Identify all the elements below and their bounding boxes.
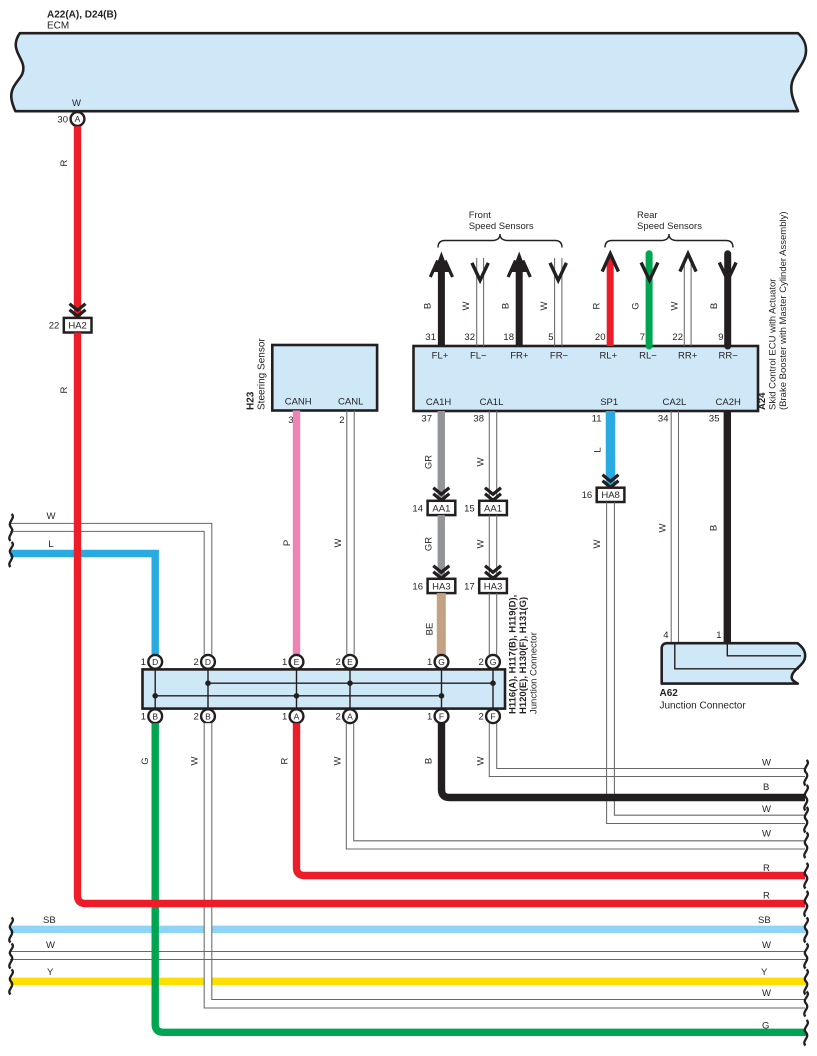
- junction pin 1(E): [282, 655, 303, 669]
- A24 Skid Control ECU box: [414, 211, 790, 411]
- svg-text:W: W: [190, 756, 201, 765]
- row Y (full width): [9, 967, 808, 995]
- svg-text:2: 2: [194, 711, 199, 722]
- svg-text:35: 35: [709, 414, 720, 425]
- torn mark left row W-D: [9, 944, 13, 969]
- left entry wire W (to junction 2D): [9, 511, 212, 655]
- svg-text:W: W: [476, 457, 487, 466]
- svg-text:HA8: HA8: [601, 490, 619, 501]
- svg-text:Y: Y: [47, 967, 54, 978]
- svg-text:L: L: [48, 539, 53, 550]
- svg-text:Front: Front: [469, 210, 492, 221]
- svg-text:SP1: SP1: [600, 397, 618, 408]
- svg-text:20: 20: [595, 332, 606, 343]
- svg-text:RL+: RL+: [599, 351, 617, 362]
- torn mark W left: [9, 514, 13, 541]
- svg-text:W: W: [762, 988, 771, 999]
- svg-text:SB: SB: [43, 915, 56, 926]
- wire GR (AA1 to HA3): [424, 515, 442, 577]
- sensor wire FR- pin 5 (W, chevron down): [539, 258, 566, 346]
- svg-text:B: B: [501, 303, 512, 309]
- svg-text:SB: SB: [758, 915, 771, 926]
- svg-text:2: 2: [339, 415, 344, 426]
- svg-text:GR: GR: [424, 455, 435, 469]
- svg-text:W: W: [333, 756, 344, 765]
- svg-text:CANH: CANH: [285, 397, 312, 408]
- Rear Speed Sensors label + brace: [605, 210, 733, 248]
- svg-text:Junction Connector: Junction Connector: [660, 701, 747, 712]
- torn mark right row G: [804, 1020, 808, 1046]
- svg-text:2: 2: [479, 711, 484, 722]
- junction pin 1(A): [282, 709, 303, 723]
- svg-text:A62: A62: [660, 688, 679, 699]
- junction pin 1(G): [427, 655, 448, 669]
- svg-text:16: 16: [582, 490, 593, 501]
- junction pin 1(F): [427, 709, 448, 723]
- svg-text:Y: Y: [761, 967, 768, 978]
- junction pin 2(E): [336, 655, 357, 669]
- sensor wire RR- pin 9 (B, chevron down): [709, 254, 736, 346]
- sensor wire RL+ pin 20 (R, open chevron up): [592, 254, 619, 346]
- svg-text:FR+: FR+: [510, 351, 529, 362]
- svg-text:15: 15: [464, 503, 475, 514]
- svg-text:22: 22: [672, 332, 683, 343]
- Junction Connector H116(A)...H131(G) box: [143, 595, 540, 714]
- row W-B torn mark + label (wire from HA8 drawn above): [762, 804, 808, 833]
- connector 15 AA1 (on CA1L wire): [464, 488, 507, 515]
- torn mark L left: [9, 542, 13, 567]
- svg-text:30: 30: [57, 115, 68, 126]
- svg-text:L: L: [593, 447, 604, 452]
- svg-text:3: 3: [288, 415, 293, 426]
- H23 pin 3 / wire P (pink) to junction 1E: [282, 411, 297, 655]
- junction pin 2(G): [479, 655, 500, 669]
- svg-text:1: 1: [282, 657, 287, 668]
- svg-text:W: W: [476, 756, 487, 765]
- svg-text:W: W: [762, 829, 771, 840]
- svg-text:Skid Control ECU with Actuator: Skid Control ECU with Actuator: [768, 279, 779, 410]
- svg-text:E: E: [347, 657, 353, 667]
- svg-text:P: P: [282, 540, 293, 546]
- junction pin 2(D): [194, 655, 215, 669]
- svg-text:R: R: [592, 302, 603, 309]
- svg-text:HA2: HA2: [68, 321, 86, 332]
- svg-text:R: R: [59, 159, 70, 166]
- torn mark right row W-A: [804, 760, 808, 786]
- svg-text:G: G: [438, 657, 445, 667]
- svg-text:Steering Sensor: Steering Sensor: [257, 338, 268, 410]
- sensor wire RR+ pin 22 (W, open chevron up): [670, 254, 697, 346]
- torn mark left row SB: [9, 918, 13, 943]
- svg-text:W: W: [476, 539, 487, 548]
- svg-text:A: A: [294, 711, 300, 721]
- H23 Steering Sensor box: [246, 338, 378, 411]
- svg-text:W: W: [762, 804, 771, 815]
- A24 pin 34 / wire W to A62 pin 4: [658, 411, 679, 644]
- svg-text:CA1H: CA1H: [426, 397, 451, 408]
- wire W (HA3 to junction 2G): [489, 593, 496, 656]
- sensor wire RL- pin 7 (G, chevron down): [631, 254, 658, 346]
- svg-text:G: G: [490, 657, 497, 667]
- svg-text:R: R: [763, 863, 770, 874]
- svg-text:1: 1: [716, 630, 721, 641]
- svg-text:CANL: CANL: [338, 397, 363, 408]
- row W-D (full width): [9, 940, 808, 969]
- svg-text:A24: A24: [757, 392, 768, 410]
- torn mark left row Y: [9, 970, 13, 995]
- svg-text:14: 14: [412, 503, 423, 514]
- torn mark right row R1: [804, 863, 808, 889]
- svg-text:2: 2: [194, 657, 199, 668]
- wire R from ECM pin 30 down (through HA2) to row R2: [59, 126, 78, 316]
- svg-text:G: G: [140, 757, 151, 764]
- svg-text:Speed Sensors: Speed Sensors: [469, 221, 534, 232]
- svg-text:37: 37: [421, 414, 432, 425]
- row W-C torn mark + label: [762, 829, 808, 859]
- wire W from 2(B) down, turns right into row W-E: [190, 723, 808, 1016]
- torn mark right row SB: [804, 918, 808, 943]
- svg-text:B: B: [709, 525, 720, 531]
- torn mark right row W-D: [804, 944, 808, 969]
- svg-text:G: G: [762, 1021, 769, 1032]
- svg-text:CA2L: CA2L: [663, 397, 687, 408]
- svg-text:1: 1: [427, 657, 432, 668]
- svg-text:A: A: [347, 711, 353, 721]
- svg-text:A22(A), D24(B): A22(A), D24(B): [47, 10, 117, 21]
- svg-text:W: W: [47, 511, 56, 522]
- svg-text:1: 1: [282, 711, 287, 722]
- svg-text:34: 34: [658, 414, 669, 425]
- torn mark right row R2: [804, 891, 808, 917]
- junction pin 1(B): [141, 709, 162, 723]
- ECM A22(A), D24(B) connector band: [11, 10, 806, 112]
- svg-text:11: 11: [592, 414, 602, 425]
- svg-text:F: F: [490, 711, 495, 721]
- svg-text:17: 17: [464, 581, 475, 592]
- svg-text:(Brake Booster with Master Cyl: (Brake Booster with Master Cylinder Asse…: [778, 211, 789, 410]
- A24 pin 35 / wire B to A62 pin 1: [709, 411, 728, 644]
- svg-text:RR+: RR+: [678, 351, 698, 362]
- svg-text:Speed Sensors: Speed Sensors: [637, 221, 702, 232]
- connector 17 HA3 (on CA1L wire): [464, 566, 507, 593]
- sensor wire FR+ pin 18 (B, arrow up): [501, 252, 531, 347]
- wire W (HA8 down, turns right into row W-B): [592, 502, 805, 824]
- A24 pin 37 / wire GR: [421, 411, 441, 499]
- junction pin 2(A): [336, 709, 357, 723]
- connector 14 AA1 (on CA1H wire): [412, 488, 455, 515]
- wire BE (HA3 to junction 1G): [425, 593, 442, 656]
- svg-text:FR−: FR−: [550, 351, 569, 362]
- torn mark right row B: [804, 785, 808, 811]
- svg-text:R: R: [59, 386, 70, 393]
- svg-text:9: 9: [718, 332, 723, 343]
- svg-text:B: B: [152, 711, 158, 721]
- svg-text:W: W: [461, 301, 472, 310]
- wire W from 2(A) down to row W-C: [333, 723, 806, 849]
- svg-text:CA1L: CA1L: [480, 397, 504, 408]
- svg-text:FL−: FL−: [470, 351, 487, 362]
- svg-text:5: 5: [548, 332, 553, 343]
- A24 pin 11 / wire L (blue): [592, 411, 611, 486]
- sensor wire FL- pin 32 (W, chevron down): [461, 258, 488, 346]
- svg-text:AA1: AA1: [432, 503, 450, 514]
- wire W (AA1 to HA3): [476, 515, 497, 577]
- sensor wire FL+ pin 31 (B, arrow up): [423, 252, 453, 347]
- svg-text:W: W: [658, 523, 669, 532]
- junction pin 1(D): [141, 655, 162, 669]
- svg-text:RR−: RR−: [719, 351, 739, 362]
- connector 22 HA2 (on ECM wire): [49, 304, 92, 333]
- wire G from 1(B) down to row G: [140, 723, 808, 1045]
- ECM pin 30 (A): [57, 98, 84, 126]
- junction pin 2(B): [194, 709, 215, 723]
- svg-text:D: D: [205, 657, 211, 667]
- svg-text:W: W: [592, 539, 603, 548]
- svg-text:D: D: [152, 657, 158, 667]
- svg-text:HA3: HA3: [484, 581, 502, 592]
- svg-text:W: W: [46, 940, 55, 951]
- svg-text:Rear: Rear: [637, 210, 658, 221]
- torn mark right row W-E: [804, 992, 808, 1017]
- svg-text:E: E: [294, 657, 300, 667]
- svg-text:B: B: [205, 711, 211, 721]
- svg-text:W: W: [670, 301, 681, 310]
- svg-text:16: 16: [412, 581, 423, 592]
- left entry wire L (blue, to junction 1D): [9, 539, 155, 655]
- svg-text:F: F: [439, 711, 444, 721]
- wire W from 2(F) down to row W-A: [476, 723, 808, 785]
- connector 16 HA3 (on CA1H wire): [412, 566, 455, 593]
- svg-text:B: B: [709, 303, 720, 309]
- svg-text:1: 1: [141, 657, 146, 668]
- svg-text:CA2H: CA2H: [716, 397, 741, 408]
- svg-text:22: 22: [49, 321, 60, 332]
- junction pin 2(F): [479, 709, 500, 723]
- svg-text:ECM: ECM: [47, 21, 69, 32]
- svg-text:H23: H23: [246, 391, 257, 410]
- svg-text:W: W: [762, 758, 771, 769]
- svg-text:H116(A), H117(B), H119(D),: H116(A), H117(B), H119(D),: [508, 595, 519, 714]
- A24 pin 38 / wire W: [473, 411, 496, 499]
- svg-text:FL+: FL+: [432, 351, 449, 362]
- svg-text:4: 4: [663, 630, 668, 641]
- svg-text:18: 18: [503, 332, 514, 343]
- svg-text:BE: BE: [425, 623, 436, 636]
- H23 pin 2 / wire W to junction 2E: [333, 411, 354, 655]
- svg-text:7: 7: [640, 332, 645, 343]
- svg-text:W: W: [762, 940, 771, 951]
- svg-text:W: W: [333, 538, 344, 547]
- svg-text:R: R: [280, 757, 291, 764]
- svg-text:HA3: HA3: [432, 581, 450, 592]
- svg-text:2: 2: [479, 657, 484, 668]
- torn mark right row Y: [804, 970, 808, 995]
- svg-text:Junction Connector: Junction Connector: [529, 632, 540, 714]
- svg-text:R: R: [763, 891, 770, 902]
- A62 Junction Connector box: [660, 643, 806, 711]
- svg-text:H120(E), H130(F), H131(G): H120(E), H130(F), H131(G): [518, 597, 529, 714]
- wire B from 1(F) down to row B: [424, 723, 808, 810]
- svg-text:1: 1: [141, 711, 146, 722]
- svg-text:2: 2: [336, 711, 341, 722]
- svg-text:38: 38: [473, 414, 484, 425]
- svg-text:W: W: [72, 98, 81, 109]
- wire R from 1(A) down to row R1: [280, 723, 808, 888]
- svg-text:1: 1: [427, 711, 432, 722]
- svg-text:2: 2: [336, 657, 341, 668]
- svg-text:B: B: [423, 303, 434, 309]
- svg-text:AA1: AA1: [484, 503, 502, 514]
- row SB (full width): [9, 915, 808, 943]
- Front Speed Sensors label + brace: [438, 210, 562, 248]
- svg-text:31: 31: [425, 332, 436, 343]
- svg-text:B: B: [424, 758, 435, 764]
- svg-text:RL−: RL−: [639, 351, 657, 362]
- svg-text:B: B: [763, 782, 769, 793]
- wire R (HA2 down to row R2): [59, 333, 808, 917]
- connector 16 HA8 (on SP1 wire): [582, 475, 625, 502]
- svg-text:G: G: [631, 302, 642, 309]
- svg-text:GR: GR: [424, 537, 435, 551]
- svg-text:A: A: [75, 114, 81, 124]
- svg-text:W: W: [539, 301, 550, 310]
- svg-text:32: 32: [464, 332, 475, 343]
